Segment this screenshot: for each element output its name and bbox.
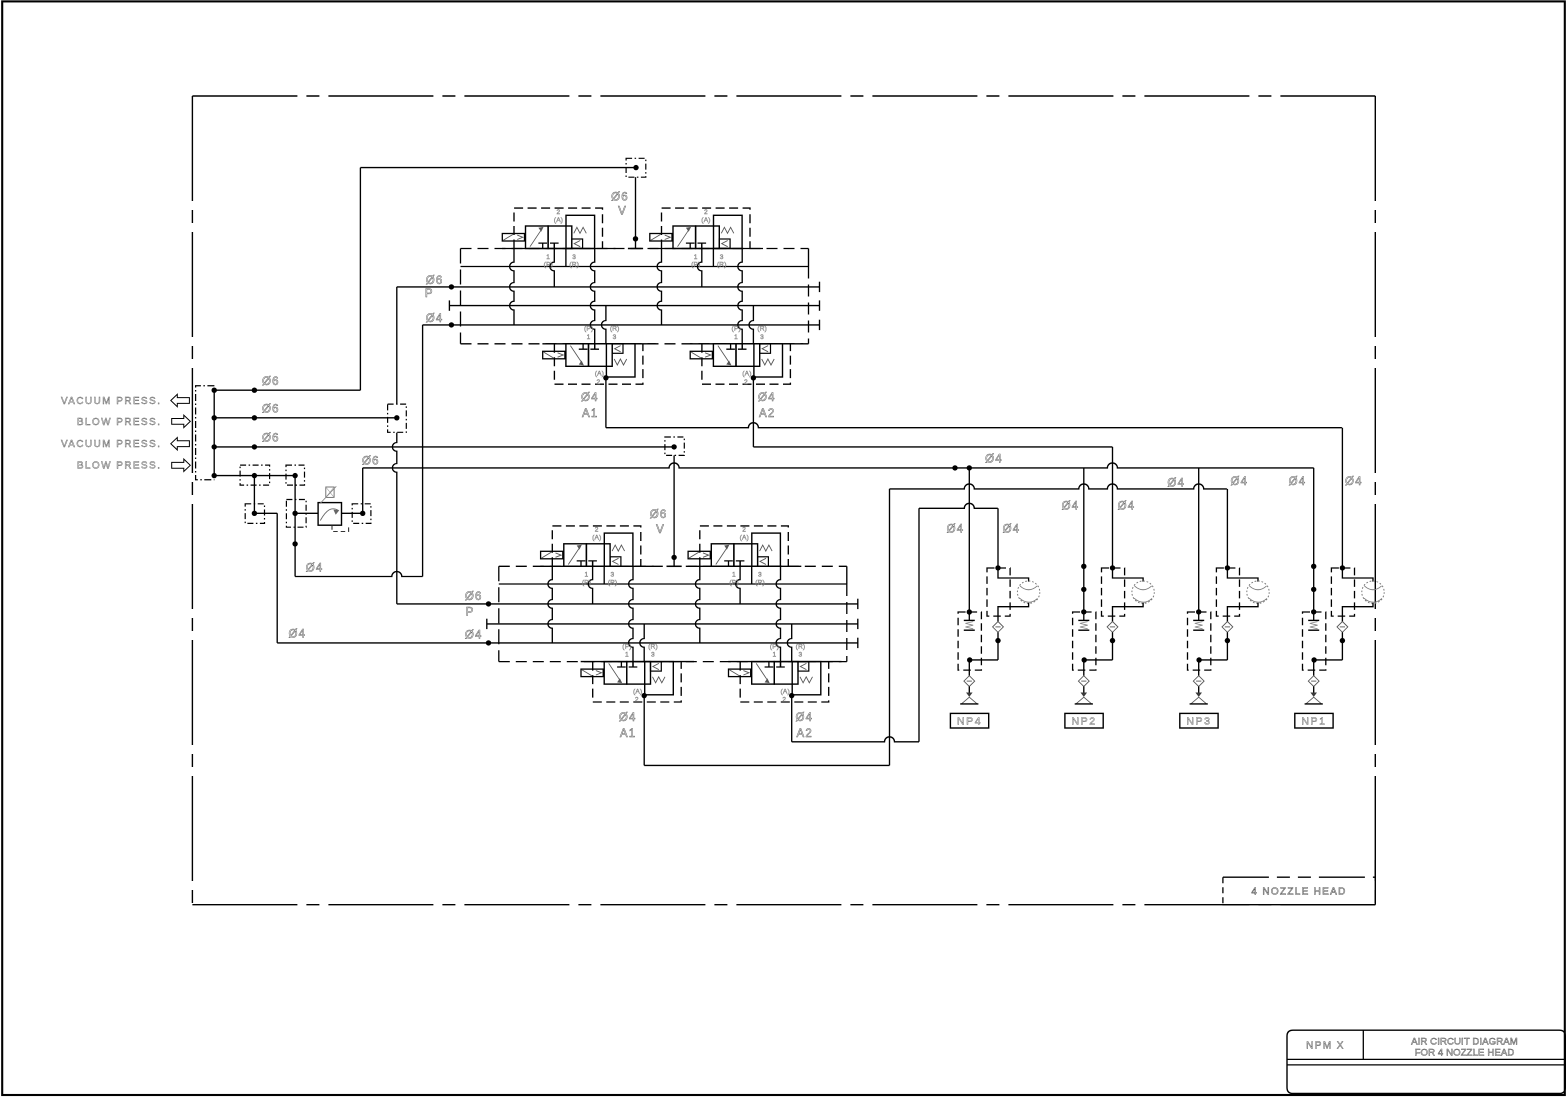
wire row2 blow: bus to junction box: [214, 417, 397, 419]
bulkhead connector bracket (dash-dot): [196, 386, 215, 480]
bottom group lower mounting face solid under valve 4: [728, 661, 841, 663]
bottom group V supply port tick: [667, 565, 682, 567]
nozzle unit NP2 vacuum line joint dot 3: [1081, 609, 1086, 614]
title block frame: [1287, 1030, 1565, 1093]
valve SV5 (bottom group upper-left) flow arrow: [568, 546, 580, 564]
valve SV7 (bottom group lower-left) solenoid actuator: [581, 669, 603, 677]
valve SV1 (top group upper-left) solenoid actuator: [502, 234, 524, 242]
wire top group 04 feed corner run: [423, 324, 452, 326]
svg-text:(R): (R): [608, 580, 618, 587]
wire regulator inlet stub down to corner: [294, 544, 296, 577]
nozzle unit NP2 vacuum box outlet dot: [1082, 657, 1087, 662]
valve SV4 (top group lower-right) blocked port symbols: [726, 344, 735, 349]
nozzle unit NP3 vacuum line joint dot 1: [1196, 609, 1201, 614]
wire branch to Dprime dropper: [254, 512, 277, 514]
wire A2 output run to NP2 blow line: [753, 446, 1112, 448]
valve SV1 (top group upper-left) blocked port symbols: [538, 243, 547, 248]
wire A1 output drop (bottom group): [643, 696, 645, 766]
svg-text:A1: A1: [620, 728, 636, 740]
nozzle unit NP4 label box: [950, 713, 988, 728]
valve SV3 (top group lower-left) pilot check box: [612, 344, 623, 353]
top group valve 2 P stem to rail B: [697, 243, 701, 287]
svg-text:Ø4: Ø4: [465, 629, 483, 641]
svg-text:P: P: [425, 288, 434, 300]
svg-text:VACUUM PRESS.: VACUUM PRESS.: [61, 396, 162, 407]
svg-text:(A): (A): [701, 217, 710, 224]
valve SV8 (bottom group lower-right) spring-return block: [792, 662, 821, 695]
top group valve 2 R stem to rail A: [712, 249, 714, 267]
svg-text:(P): (P): [622, 643, 631, 650]
valve SV4 (top group lower-right) spring-return block: [754, 344, 783, 377]
wire regulator inlet horizontal: [295, 512, 318, 514]
bottom group valve 2 P stem to rail B: [736, 561, 740, 604]
valve SV6 (bottom group upper-right) pilot check box: [758, 557, 769, 566]
valve SV4 (top group lower-right) flow arrow: [718, 346, 730, 364]
nozzle unit NP4 check valve diamond (blow): [993, 622, 1004, 633]
wire A2 output drop (bottom group): [791, 696, 793, 742]
nozzle unit NP1 blow branch dashed box (right): [1331, 568, 1354, 616]
svg-text:1: 1: [625, 652, 629, 659]
wire row4 blow: bus to regulator tee: [214, 475, 295, 477]
svg-text:(P): (P): [770, 643, 779, 650]
svg-text:3: 3: [611, 572, 615, 579]
svg-text:Ø4: Ø4: [1003, 524, 1021, 536]
valve SV7 (bottom group lower-left) body position square 1: [604, 662, 627, 685]
valve SV8 (bottom group lower-right) solenoid actuator: [729, 669, 751, 677]
4 NOZZLE HEAD label box: [1223, 876, 1375, 878]
wire bottom group P feed corner run: [397, 603, 489, 605]
top group rail D end tick: [819, 320, 821, 330]
svg-text:2: 2: [635, 697, 639, 704]
svg-text:FOR 4 NOZZLE HEAD: FOR 4 NOZZLE HEAD: [1415, 1047, 1515, 1058]
svg-text:(R): (R): [648, 643, 658, 650]
svg-text:1: 1: [694, 254, 698, 261]
bulkhead box row4 first (dash-dot): [240, 465, 270, 485]
svg-text:V: V: [656, 524, 665, 536]
svg-text:Ø6: Ø6: [262, 376, 280, 388]
nozzle unit NP1 vacuum line joint dot 3: [1311, 609, 1316, 614]
svg-text:1: 1: [772, 652, 776, 659]
top group rail C: [449, 305, 819, 307]
nozzle unit NP1 blow drop wire from top group A1: [1341, 428, 1343, 568]
nozzle unit NP2 flow indicator ball: [1132, 581, 1154, 603]
wire row3 vacuum run to bottom group V-port box: [214, 446, 674, 448]
nozzle unit NP3 vacuum box outlet dot: [1196, 657, 1201, 662]
arrow right (blow inlet 2): [172, 415, 191, 427]
top group mounting face solid under valve 2: [650, 248, 764, 250]
top group lower mounting face solid under valve 3: [542, 343, 655, 345]
valve SV2 (top group upper-right) pilot check box: [719, 239, 730, 248]
nozzle unit NP2 blow inlet dot: [1110, 565, 1115, 570]
nozzle unit NP3 check valve diamond (nozzle): [1193, 676, 1204, 687]
bottom group rail A right riser to face: [846, 566, 848, 584]
junction dot row4 first: [252, 473, 257, 478]
top group rail C right tick: [819, 300, 821, 310]
valve SV2 (top group upper-right) body position square 2: [696, 226, 720, 249]
nozzle unit NP3 check valve diamond (blow): [1222, 622, 1233, 633]
svg-text:(A): (A): [742, 371, 751, 378]
wire row1 vacuum: bus to corner: [214, 389, 360, 391]
machine boundary dashed box right edge: [1374, 96, 1376, 905]
nozzle unit NP1 blow branch mid dot: [1341, 632, 1343, 660]
valve SV1 (top group upper-left) spring-return block: [566, 215, 595, 248]
bottom group lower valve 4 P stem long line to face: [776, 566, 780, 667]
junction dot bottom V supply near manifold: [671, 555, 676, 560]
junction dot regulator inlet: [292, 511, 297, 516]
nozzle unit NP3 check/filter dashed box (left): [1188, 612, 1211, 670]
junction dot port row 1 at bus: [212, 388, 217, 393]
valve SV2 (top group upper-right) body position square 1: [673, 226, 696, 249]
valve SV3 (top group lower-left) body position square 2: [589, 344, 613, 367]
svg-text:(R): (R): [569, 262, 579, 269]
valve SV4 (top group lower-right) dashed enclosure: [702, 344, 791, 384]
svg-text:NP4: NP4: [957, 716, 982, 728]
bottom group rail C: [487, 623, 858, 625]
nozzle unit NP2 nozzle tip stem: [1083, 687, 1085, 697]
svg-text:3: 3: [760, 334, 764, 341]
top group station line left of valve 2: [657, 249, 661, 325]
nozzle unit NP4 vacuum drop wire: [968, 468, 970, 612]
svg-text:(P): (P): [691, 262, 700, 269]
svg-text:3: 3: [758, 572, 762, 579]
junction dot row4 second: [292, 473, 297, 478]
nozzle unit NP4 blow branch bottom run: [970, 659, 998, 661]
nozzle unit NP1 vacuum line joint dot 2: [1311, 587, 1316, 592]
machine boundary dashed box bottom edge: [192, 904, 1375, 906]
valve SV3 (top group lower-left) flow arrow: [570, 346, 582, 364]
valve SV2 (top group upper-right) return spring zigzag: [721, 227, 734, 233]
svg-text:BLOW PRESS.: BLOW PRESS.: [77, 417, 162, 428]
svg-text:(P): (P): [544, 262, 553, 269]
wire row2 dropper down to bottom group P rail (with jumps): [392, 433, 396, 604]
nozzle unit NP2 blow branch dashed box (right): [1102, 568, 1125, 616]
valve SV6 (bottom group upper-right) flow arrow: [716, 546, 728, 564]
nozzle unit NP2 blow drop wire from top group A2: [1112, 447, 1114, 568]
valve SV4 (top group lower-right) pilot check box: [760, 344, 771, 353]
nozzle unit NP4 blow branch dashed box (right): [987, 568, 1010, 616]
nozzle unit NP4 blow branch Z-wire to flow ball: [998, 568, 1029, 582]
bottom group rail B (06 P supply): [489, 603, 858, 605]
svg-text:Ø4: Ø4: [1118, 501, 1136, 513]
wire A2 output bottom run (with jump): [792, 737, 919, 742]
bottom group rail D end tick: [857, 638, 859, 648]
top group lower valve 4 P stem long line to face: [738, 249, 742, 350]
top group lower valve 3 P stem long line to face: [590, 249, 594, 350]
svg-text:Ø6: Ø6: [611, 191, 629, 203]
valve SV8 (bottom group lower-right) blocked port symbols: [765, 662, 774, 667]
valve SV8 (bottom group lower-right) pilot check box: [798, 662, 809, 671]
valve SV7 (bottom group lower-left) spring-return block: [645, 662, 674, 695]
bottom group rail D (04 supply): [489, 642, 858, 644]
nozzle unit NP2 spring element: [1083, 612, 1085, 620]
junction dot regulator outlet: [360, 511, 365, 516]
bulkhead box row4 second (dash-dot): [286, 465, 305, 485]
svg-text:Ø4: Ø4: [1062, 501, 1080, 513]
top group lower valve 4 R stem to rail C: [749, 306, 753, 344]
top group rail A: [461, 266, 809, 268]
bottom group rail C left tick: [486, 619, 488, 629]
top group rail D (04 supply): [451, 324, 819, 326]
valve SV3 (top group lower-left) blocked port symbols: [579, 344, 588, 349]
valve SV4 (top group lower-right) return spring zigzag: [762, 359, 775, 365]
nozzle unit NP4 blow branch mid dot: [997, 632, 999, 660]
nozzle unit NP2 check valve diamond (nozzle): [1078, 676, 1089, 687]
nozzle unit NP2 vacuum drop wire: [1083, 468, 1085, 612]
svg-text:(R): (R): [796, 643, 806, 650]
regulator flow path arrow: [320, 509, 338, 521]
valve SV3 (top group lower-left) body position square 1: [566, 344, 589, 367]
valve SV6 (bottom group upper-right) blocked port symbols: [724, 561, 733, 566]
valve SV1 (top group upper-left) pilot check box: [572, 239, 583, 248]
valve SV3 (top group lower-left) spring-return block: [606, 344, 635, 377]
svg-text:Ø4: Ø4: [306, 562, 324, 574]
wire A1 output run to NP1 blow line (with jump): [606, 423, 1342, 428]
wire A1 output riser to NP3 feed: [889, 489, 891, 766]
valve SV8 (bottom group lower-right) body position square 2: [774, 662, 798, 685]
svg-text:1: 1: [734, 334, 738, 341]
wire regulator outlet: [342, 512, 363, 514]
nozzle unit NP2 label box: [1065, 713, 1103, 728]
valve SV7 (bottom group lower-left) flow arrow: [609, 663, 621, 681]
nozzle unit NP2 blow branch mid dot: [1112, 632, 1114, 660]
valve SV8 (bottom group lower-right) dashed enclosure: [740, 662, 829, 702]
svg-text:(P): (P): [729, 580, 738, 587]
junction dot regulator branch left: [252, 511, 257, 516]
valve SV1 (top group upper-left) body position square 2: [548, 226, 572, 249]
nozzle unit NP3 flow indicator ball: [1247, 581, 1269, 603]
valve SV5 (bottom group upper-left) dashed enclosure: [552, 526, 641, 566]
top group lower valve 3 R stem to rail C: [602, 306, 606, 344]
svg-text:1: 1: [732, 572, 736, 579]
nozzle unit NP3 nozzle tip bowtie: [1196, 693, 1201, 697]
nozzle unit NP3 blow branch dashed box (right): [1216, 568, 1239, 616]
nozzle unit NP1 check/filter dashed box (left): [1303, 612, 1326, 670]
valve SV2 (top group upper-right) flow arrow: [678, 228, 690, 246]
junction dot row2 tee: [394, 415, 399, 420]
nozzle unit NP3 blow inlet dot: [1225, 565, 1230, 570]
top group rail C left tick: [448, 300, 450, 310]
nozzle unit NP4 flow ball return wire: [998, 603, 1029, 622]
svg-text:2: 2: [704, 209, 708, 216]
nozzle unit NP3 blow branch mid dot: [1226, 632, 1228, 660]
nozzle unit NP3 vacuum drop wire: [1198, 468, 1200, 612]
bottom group manifold mounting face dashed (top): [499, 565, 847, 567]
svg-text:BLOW PRESS.: BLOW PRESS.: [77, 461, 162, 472]
wire A1 output drop (top group): [605, 378, 607, 428]
svg-text:2: 2: [595, 527, 599, 534]
svg-text:Ø6: Ø6: [465, 591, 483, 603]
nozzle unit NP1 label box: [1295, 713, 1333, 728]
wire top group 04 feed riser: [422, 325, 424, 577]
nozzle unit NP3 spring element: [1198, 612, 1200, 620]
nozzle unit NP4 check/filter dashed box (left): [958, 612, 981, 670]
nozzle unit NP1 nozzle tip stem: [1313, 687, 1315, 697]
nozzle unit NP3 blow branch Z-wire to flow ball: [1227, 568, 1258, 582]
svg-text:VACUUM PRESS.: VACUUM PRESS.: [61, 439, 162, 450]
svg-text:AIR CIRCUIT DIAGRAM: AIR CIRCUIT DIAGRAM: [1411, 1036, 1518, 1047]
svg-text:Ø6: Ø6: [650, 509, 668, 521]
wire top group 04 feed run (jumps over P riser): [295, 572, 423, 577]
nozzle unit NP3 nozzle stem: [1198, 660, 1200, 676]
valve SV1 (top group upper-left) body position square 1: [526, 226, 549, 249]
svg-text:NPM X: NPM X: [1306, 1040, 1345, 1051]
svg-text:Ø4: Ø4: [619, 712, 637, 724]
svg-text:NP3: NP3: [1186, 716, 1211, 728]
arrow left (vacuum inlet 1): [171, 394, 190, 406]
svg-text:3: 3: [651, 652, 655, 659]
nozzle unit NP4 spring element: [968, 612, 970, 620]
svg-text:V: V: [618, 206, 627, 218]
svg-text:(R): (R): [717, 262, 727, 269]
valve SV7 (bottom group lower-left) blocked port symbols: [617, 662, 626, 667]
svg-text:3: 3: [798, 652, 802, 659]
nozzle unit NP2 nozzle tip bowtie: [1081, 693, 1086, 697]
bulkhead box row2 junction (dash-dot): [388, 404, 407, 432]
svg-text:P: P: [466, 607, 475, 619]
wire drop from row4 first tee: [253, 476, 255, 514]
nozzle unit NP2 check valve diamond (blow): [1107, 622, 1118, 633]
valve SV1 (top group upper-left) dashed enclosure: [514, 208, 603, 248]
valve SV4 (top group lower-right) body position square 2: [736, 344, 760, 367]
nozzle unit NP2 flow ball return wire: [1113, 603, 1144, 622]
svg-text:Ø4: Ø4: [1231, 476, 1249, 488]
valve SV8 (bottom group lower-right) return spring zigzag: [800, 677, 813, 683]
svg-text:A1: A1: [582, 408, 598, 420]
top group valve 1 R stem to rail A: [565, 249, 567, 267]
valve SV1 (top group upper-left) return spring zigzag: [574, 227, 587, 233]
svg-text:(A): (A): [633, 688, 642, 695]
nozzle unit NP3 flow ball return wire: [1227, 603, 1258, 622]
nozzle unit NP1 blow branch Z-wire to flow ball: [1342, 568, 1373, 582]
top group valve 1 P stem to rail B: [550, 243, 554, 287]
svg-text:NP1: NP1: [1301, 716, 1326, 728]
valve SV2 (top group upper-right) blocked port symbols: [686, 243, 695, 248]
bottom group station line left of valve 1: [548, 566, 552, 643]
svg-text:3: 3: [572, 254, 576, 261]
joint dot row2: [252, 415, 257, 420]
nozzle unit NP1 vacuum drop wire: [1313, 468, 1315, 612]
machine boundary dashed box top edge: [192, 95, 1375, 97]
svg-text:Ø4: Ø4: [581, 392, 599, 404]
valve SV6 (bottom group upper-right) return spring zigzag: [760, 545, 773, 551]
nozzle unit NP1 vacuum line joint dot 1: [1311, 564, 1316, 569]
valve SV2 (top group upper-right) spring-return block: [714, 215, 743, 248]
valve SV5 (bottom group upper-left) blocked port symbols: [577, 561, 586, 566]
valve SV8 (bottom group lower-right) outlet A junction dot: [789, 693, 794, 698]
junction dot port row 4 at bus: [212, 473, 217, 478]
nozzle unit NP3 blow drop wire from bottom group A1: [1226, 489, 1228, 568]
nozzle unit NP2 check/filter dashed box (left): [1073, 612, 1096, 670]
svg-text:2: 2: [742, 527, 746, 534]
wire A2 output riser to NP4 feed: [918, 508, 920, 742]
svg-text:(A): (A): [781, 688, 790, 695]
junction dot V supply near manifold: [633, 236, 638, 241]
svg-text:2: 2: [597, 379, 601, 386]
valve SV7 (bottom group lower-left) body position square 2: [627, 662, 651, 685]
nozzle unit NP4 check valve diamond (nozzle): [964, 676, 975, 687]
top group rail B supply dot: [449, 284, 454, 289]
wire A1 output run to NP3 blow line (with jumps): [890, 484, 1227, 489]
bottom group valve 1 P stem to rail B: [588, 561, 592, 604]
valve SV5 (bottom group upper-left) return spring zigzag: [612, 545, 625, 551]
top group lower mounting face dashed (bottom): [461, 343, 809, 345]
top group V supply port tick: [628, 248, 643, 250]
svg-text:1: 1: [546, 254, 550, 261]
valve SV5 (bottom group upper-left) spring-return block: [604, 533, 633, 566]
svg-text:Ø4: Ø4: [796, 712, 814, 724]
bottom group lower mounting face dashed (bottom): [499, 661, 847, 663]
valve SV5 (bottom group upper-left) body position square 2: [586, 544, 610, 567]
top group manifold mounting face dashed (top): [461, 248, 809, 250]
top group rail D supply dot: [449, 322, 454, 327]
title block horizontal line 1: [1287, 1058, 1565, 1060]
valve SV3 (top group lower-left) solenoid actuator: [543, 351, 565, 359]
svg-text:Ø4: Ø4: [758, 392, 776, 404]
valve SV6 (bottom group upper-right) body position square 2: [734, 544, 758, 567]
valve SV8 (bottom group lower-right) flow arrow: [756, 663, 768, 681]
bottom group mounting face solid under valve 1: [540, 565, 654, 567]
nozzle unit NP4 flow indicator ball: [1017, 581, 1039, 603]
wire Dprime dropper down: [276, 513, 278, 643]
bottom group dashed box right edge: [846, 584, 848, 662]
svg-text:Ø6: Ø6: [262, 433, 280, 445]
valve SV7 (bottom group lower-left) pilot check box: [651, 662, 662, 671]
svg-text:3: 3: [720, 254, 724, 261]
connector bus vertical wire: [213, 390, 215, 475]
bottom group rail A: [499, 583, 847, 585]
svg-text:Ø6: Ø6: [362, 456, 380, 468]
top group dashed box left edge: [460, 249, 462, 344]
nozzle unit NP1 flow ball return wire: [1342, 603, 1373, 622]
svg-text:Ø4: Ø4: [947, 524, 965, 536]
nozzle unit NP4 nozzle tip stem: [968, 687, 970, 697]
nozzle unit NP1 blow inlet dot: [1340, 565, 1345, 570]
nozzle unit NP3 nozzle tip stem: [1198, 687, 1200, 697]
nozzle unit NP3 label box: [1180, 713, 1218, 728]
bulkhead box regulator inlet (dash-dot): [286, 500, 306, 528]
valve SV8 (bottom group lower-right) body position square 1: [752, 662, 775, 685]
svg-text:(R): (R): [755, 580, 765, 587]
bottom group lower mounting face solid under valve 3: [581, 661, 694, 663]
nozzle unit NP1 flow indicator ball: [1362, 581, 1384, 603]
valve SV2 (top group upper-right) dashed enclosure: [662, 208, 751, 248]
title block divider vertical: [1362, 1030, 1364, 1059]
svg-text:1: 1: [587, 334, 591, 341]
svg-text:2: 2: [556, 209, 560, 216]
top group mounting face solid under valve 1: [502, 248, 616, 250]
bottom group lower valve 4 R stem to rail C: [787, 624, 791, 662]
valve SV6 (bottom group upper-right) dashed enclosure: [700, 526, 789, 566]
nozzle unit NP4 blow inlet dot: [995, 565, 1000, 570]
svg-text:(A): (A): [554, 217, 563, 224]
top group rail B end tick: [819, 282, 821, 292]
nozzle unit NP1 nozzle stem: [1313, 660, 1315, 676]
bottom group rail B supply dot: [486, 601, 491, 606]
valve SV6 (bottom group upper-right) spring-return block: [752, 533, 781, 566]
wire regulator outlet riser to vacuum distribution: [362, 468, 364, 513]
junction dot below regulator inlet: [292, 541, 297, 546]
svg-text:(P): (P): [584, 326, 593, 333]
nozzle unit NP2 blow branch bottom run: [1084, 659, 1112, 661]
regulator oblique adjustment arrow: [320, 486, 337, 504]
svg-text:(R): (R): [757, 326, 767, 333]
valve SV3 (top group lower-left) outlet A junction dot: [603, 375, 608, 380]
bottom group V supply bulkhead box (dash-dot): [665, 437, 684, 455]
svg-text:Ø4: Ø4: [1167, 478, 1185, 490]
bottom group rail B end tick: [857, 599, 859, 609]
wire row2 riser up to top group P rail: [396, 287, 398, 404]
nozzle unit NP1 nozzle tip bowtie: [1311, 693, 1316, 697]
